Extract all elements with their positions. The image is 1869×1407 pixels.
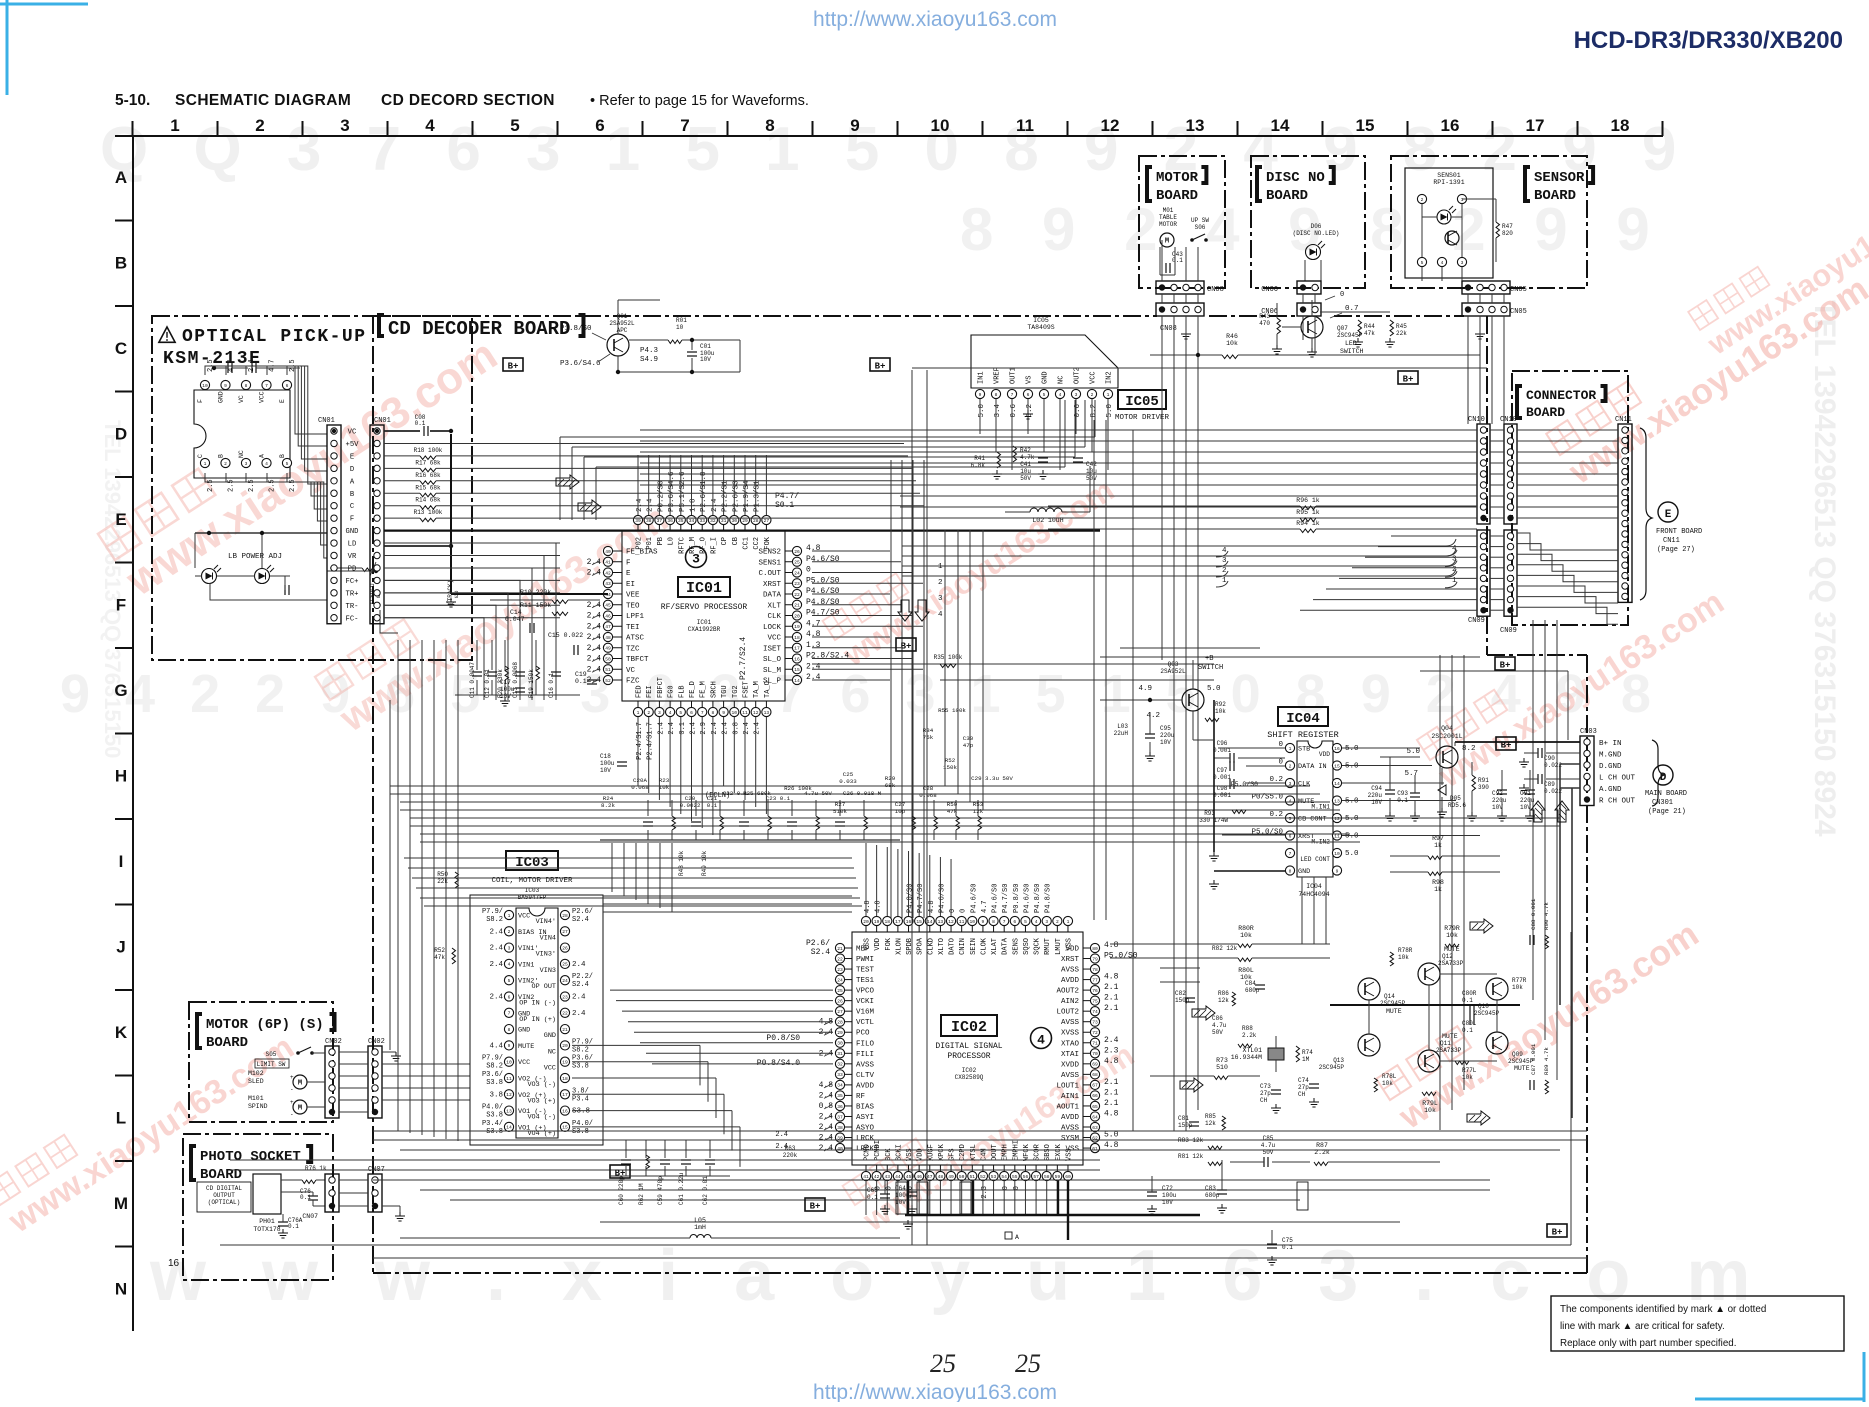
svg-text:B+: B+ [875, 362, 886, 372]
board DISC NO BOARD outline [1251, 156, 1365, 288]
svg-text:25: 25 [1015, 1349, 1041, 1378]
svg-text:C81: C81 [1178, 1115, 1189, 1122]
svg-text:OP OUT: OP OUT [532, 983, 556, 991]
svg-text:FLB: FLB [678, 685, 686, 698]
wire inner gray box [911, 370, 913, 1245]
wire CN10 gap rows [1490, 429, 1504, 431]
svg-text:FOK: FOK [885, 937, 893, 950]
left ruler line [132, 136, 134, 1331]
svg-text:75k: 75k [923, 734, 934, 741]
svg-text:EI: EI [626, 581, 635, 589]
svg-text:CLK: CLK [767, 613, 781, 621]
svg-text:TR+: TR+ [346, 590, 359, 598]
svg-text:10V: 10V [1162, 1199, 1173, 1206]
svg-text:2: 2 [938, 579, 943, 587]
svg-text:P4.8/S0: P4.8/S0 [1034, 884, 1042, 913]
svg-text:680p: 680p [1205, 1192, 1220, 1199]
svg-text:OUTPUT: OUTPUT [213, 1192, 235, 1199]
svg-text:3: 3 [658, 710, 661, 716]
top ruler ticks and numbers [132, 121, 134, 136]
svg-text:2.2k: 2.2k [1242, 1032, 1257, 1039]
svg-text:2.4: 2.4 [668, 722, 676, 735]
svg-text:M101: M101 [248, 1095, 264, 1102]
svg-text:B: B [218, 454, 225, 458]
svg-text:M: M [298, 1105, 302, 1113]
svg-text:77: 77 [1092, 977, 1098, 983]
svg-text:C62 0.01: C62 0.01 [702, 1176, 709, 1205]
svg-text:12: 12 [753, 710, 759, 716]
svg-text:35: 35 [678, 518, 684, 524]
svg-text:22k: 22k [437, 878, 448, 885]
svg-text:5.7: 5.7 [1404, 770, 1418, 778]
svg-text:B: B [279, 454, 286, 458]
svg-text:LPF1: LPF1 [626, 613, 645, 621]
svg-text:VS: VS [1026, 376, 1034, 384]
svg-text:P2.8/S2.4: P2.8/S2.4 [806, 652, 849, 661]
svg-text:R88: R88 [1242, 1025, 1253, 1032]
svg-text:MUTE: MUTE [518, 1043, 534, 1051]
svg-text:0.1: 0.1 [415, 420, 426, 427]
svg-text:RPI-1391: RPI-1391 [1433, 179, 1464, 186]
svg-text:RF_O: RF_O [700, 537, 708, 554]
svg-text:GND: GND [1042, 371, 1050, 384]
svg-text:0.1: 0.1 [1172, 257, 1183, 264]
svg-text:4: 4 [1059, 392, 1062, 398]
svg-text:0.047: 0.047 [505, 616, 525, 623]
svg-text:P4.8/S0: P4.8/S0 [1045, 884, 1053, 913]
svg-text:S05: S05 [266, 1051, 277, 1058]
svg-text:FSET: FSET [743, 681, 751, 698]
svg-text:R10 220k: R10 220k [520, 589, 551, 596]
svg-text:(DISC NO.LED): (DISC NO.LED) [1293, 230, 1340, 237]
pickup IC body [194, 390, 290, 478]
connector CN06 disc board [1297, 281, 1321, 294]
svg-text:VCTL: VCTL [856, 1019, 875, 1027]
svg-text:15: 15 [916, 919, 922, 925]
svg-text:74: 74 [1092, 1009, 1098, 1015]
svg-text:R76 1k: R76 1k [305, 1165, 327, 1172]
svg-text:TABLE: TABLE [1159, 214, 1177, 221]
svg-text:43: 43 [605, 581, 611, 587]
svg-text:TA8409S: TA8409S [1027, 324, 1054, 331]
svg-text:DISC NO: DISC NO [1266, 170, 1325, 186]
svg-text:2.1: 2.1 [1104, 983, 1119, 992]
svg-text:0.1: 0.1 [1462, 1027, 1473, 1034]
svg-text:16.9344M: 16.9344M [1231, 1054, 1262, 1061]
svg-text:TEL 13942296513 QQ 376315150: TEL 13942296513 QQ 376315150 [100, 420, 125, 758]
capacitor C41 10u 50V [1038, 457, 1048, 459]
svg-text:F: F [626, 559, 631, 567]
svg-text:R19 150k: R19 150k [528, 669, 535, 698]
svg-text:5: 5 [1043, 392, 1046, 398]
svg-text:GND: GND [218, 391, 225, 403]
svg-text:P4.6/S0: P4.6/S0 [970, 884, 978, 913]
svg-text:R41: R41 [974, 455, 985, 462]
svg-text:WFCK: WFCK [1023, 1143, 1031, 1161]
svg-text:CN03: CN03 [1580, 728, 1597, 736]
arrow mid right [1192, 1006, 1215, 1020]
svg-text:220k: 220k [783, 1152, 798, 1159]
svg-text:P4.6/S0: P4.6/S0 [992, 884, 1000, 913]
svg-text:P4.6/S0: P4.6/S0 [806, 555, 840, 564]
svg-text:VPCO: VPCO [856, 988, 875, 996]
svg-text:3: 3 [508, 945, 511, 951]
svg-text:C80R: C80R [1462, 990, 1477, 997]
svg-text:TG2: TG2 [732, 685, 740, 698]
svg-text:LOCK: LOCK [763, 624, 782, 632]
svg-text:4.2: 4.2 [1146, 712, 1160, 720]
svg-text:10: 10 [732, 710, 738, 716]
svg-text:IC02: IC02 [951, 1019, 987, 1036]
svg-text:2.4: 2.4 [819, 1144, 834, 1153]
svg-text:50V: 50V [1020, 475, 1031, 482]
svg-text:R81 12k: R81 12k [1178, 1153, 1204, 1160]
svg-text:P3.6/: P3.6/ [482, 1071, 503, 1079]
svg-text:http://www.xiaoyu163.com: http://www.xiaoyu163.com [813, 8, 1057, 31]
svg-text:VCC: VCC [259, 391, 266, 403]
svg-text:2.1: 2.1 [1104, 994, 1119, 1003]
svg-text:4: 4 [1441, 260, 1444, 266]
svg-text:66: 66 [1092, 1093, 1098, 1099]
svg-text:C97: C97 [1217, 767, 1228, 774]
svg-text:2SA733P: 2SA733P [1436, 1047, 1462, 1054]
svg-text:SPDB: SPDB [906, 938, 914, 955]
svg-text:R01: R01 [676, 317, 687, 324]
processor IC02 DIGITAL SIGNAL PROCESSOR body [852, 932, 1083, 1165]
svg-text:(Page 27): (Page 27) [1657, 546, 1695, 554]
svg-text:C12 0.01: C12 0.01 [484, 669, 491, 698]
svg-text:1mH: 1mH [694, 1224, 706, 1231]
svg-text:XPCK: XPCK [938, 1143, 946, 1161]
svg-text:GND: GND [518, 1027, 530, 1035]
svg-text:2.4: 2.4 [775, 1143, 788, 1151]
shift register IC04 label box [1278, 707, 1328, 726]
svg-text:R98: R98 [1432, 879, 1444, 886]
svg-text:5.0: 5.0 [1406, 748, 1420, 756]
svg-text:A: A [1015, 1234, 1019, 1241]
svg-text:68k: 68k [885, 782, 896, 789]
svg-text:1k: 1k [1434, 886, 1442, 893]
connector CN10 left strip [1477, 424, 1490, 524]
B+ label top left [503, 358, 523, 371]
svg-text:C29 3.3u 50V: C29 3.3u 50V [971, 775, 1013, 782]
svg-text:FBFCT: FBFCT [657, 677, 665, 698]
svg-text:36: 36 [837, 1104, 843, 1110]
wire bus vertical right side [1439, 655, 1441, 1130]
svg-text:4.8: 4.8 [928, 900, 936, 913]
svg-text:MUTE: MUTE [1442, 1033, 1458, 1040]
svg-text:10k: 10k [1215, 708, 1226, 715]
svg-text:SENSOR: SENSOR [1534, 170, 1585, 186]
svg-text:17: 17 [1526, 116, 1545, 135]
svg-text:4.8: 4.8 [1104, 1057, 1119, 1066]
svg-text:C60 220p: C60 220p [618, 1176, 625, 1205]
svg-text:P0.8/S0: P0.8/S0 [766, 1034, 800, 1043]
wires CN02 rows [339, 1051, 368, 1053]
svg-text:J: J [116, 938, 125, 957]
svg-text:CLTV: CLTV [856, 1072, 875, 1080]
svg-text:10V: 10V [600, 767, 611, 774]
svg-text:Q14: Q14 [1384, 993, 1395, 1000]
svg-text:10: 10 [202, 383, 208, 389]
svg-text:2.4: 2.4 [587, 633, 602, 642]
svg-text:A: A [115, 168, 127, 187]
svg-text:52: 52 [605, 678, 611, 684]
svg-text:R13 100k: R13 100k [414, 509, 443, 516]
svg-text:XUGF: XUGF [927, 1144, 935, 1161]
svg-text:VCKI: VCKI [856, 998, 874, 1006]
wire pickup to CN01 fan [205, 366, 327, 434]
svg-text:R79L: R79L [1422, 1100, 1438, 1107]
svg-text:3: 3 [1461, 260, 1464, 266]
svg-text:B+: B+ [810, 1202, 821, 1212]
svg-text:R94 1k: R94 1k [1296, 520, 1320, 527]
svg-text:B: B [115, 254, 127, 273]
svg-text:R16 68k: R16 68k [415, 472, 441, 479]
svg-text:14: 14 [794, 678, 800, 684]
svg-text:CN02: CN02 [368, 1038, 385, 1046]
svg-text:S3.8: S3.8 [486, 1112, 503, 1120]
svg-text:36: 36 [667, 518, 673, 524]
wire rows under Q03 zone [940, 663, 1214, 665]
svg-text:15: 15 [562, 1125, 568, 1131]
wire bundle into IC02 topleft labels [404, 857, 852, 859]
svg-text:10k: 10k [1382, 1080, 1393, 1087]
label SENSOR BOARD [1525, 167, 1530, 201]
svg-text:38: 38 [837, 1125, 843, 1131]
wire CN03 rows [1455, 741, 1580, 743]
svg-text:10u: 10u [1020, 468, 1031, 475]
svg-text:10: 10 [1334, 851, 1340, 857]
IC03 left pins 1-14 [504, 910, 513, 919]
svg-text:CD DIGITAL: CD DIGITAL [206, 1185, 242, 1192]
svg-text:17: 17 [895, 919, 901, 925]
svg-text:2.9: 2.9 [700, 722, 708, 735]
svg-text:TOTX178: TOTX178 [253, 1226, 280, 1233]
svg-text:2SA952L: 2SA952L [1160, 668, 1186, 675]
svg-text:12: 12 [506, 1092, 512, 1098]
svg-text:XLTO: XLTO [938, 938, 946, 955]
svg-text:line with mark ▲ are critical: line with mark ▲ are critical for safety… [1560, 1321, 1725, 1332]
svg-text:220u: 220u [1520, 797, 1535, 804]
svg-text:SCHEMATIC DIAGRAM: SCHEMATIC DIAGRAM [175, 92, 351, 109]
svg-text:20: 20 [562, 1043, 568, 1049]
svg-text:P4.8/S0: P4.8/S0 [806, 598, 840, 607]
transistor Q14 2SC945P MUTE [1358, 978, 1380, 1000]
svg-text:7: 7 [265, 383, 268, 389]
node 4 circle [1031, 1028, 1052, 1049]
svg-text:R44: R44 [1364, 323, 1375, 330]
svg-text:VSS: VSS [1065, 938, 1073, 951]
board MOTOR BOARD outline [1139, 156, 1225, 288]
svg-text:S3.8: S3.8 [572, 1063, 589, 1071]
svg-text:26: 26 [837, 998, 843, 1004]
svg-text:BOARD: BOARD [1526, 405, 1565, 420]
svg-text:4.8: 4.8 [806, 630, 821, 639]
svg-text:1: 1 [1461, 197, 1464, 203]
svg-text:E: E [1665, 509, 1672, 521]
svg-text:VDD: VDD [1319, 751, 1330, 758]
svg-text:D06: D06 [1311, 223, 1322, 230]
watermark pink center lower [842, 1014, 1141, 1238]
svg-text:C26 0.018 M: C26 0.018 M [843, 790, 882, 797]
svg-text:R18 100k: R18 100k [414, 447, 443, 454]
ground CN07 right [382, 1205, 400, 1207]
svg-text:BOARD: BOARD [206, 1035, 248, 1051]
svg-text:C20A: C20A [633, 777, 647, 784]
resistor R45 22k [1390, 320, 1394, 336]
svg-text:47k: 47k [1364, 330, 1375, 337]
svg-text:C84: C84 [1245, 980, 1256, 987]
svg-text:2.1: 2.1 [1104, 1004, 1119, 1013]
svg-text:PCO: PCO [856, 1030, 870, 1038]
svg-text:C82: C82 [1175, 990, 1186, 997]
svg-text:NC: NC [1058, 376, 1066, 384]
svg-text:0: 0 [949, 909, 957, 913]
svg-text:C15 0.022: C15 0.022 [548, 632, 583, 639]
svg-text:21: 21 [837, 946, 843, 952]
svg-text:D: D [115, 425, 127, 444]
svg-text:CN01: CN01 [374, 417, 391, 425]
svg-text:Q12: Q12 [1442, 953, 1453, 960]
svg-text:2: 2 [647, 710, 650, 716]
IC02 top pins 20-1 [861, 916, 870, 925]
svg-text:2.4: 2.4 [587, 622, 602, 631]
connector CN01 pickup side [327, 425, 341, 624]
svg-text:4: 4 [669, 710, 672, 716]
svg-text:2: 2 [508, 929, 511, 935]
svg-text:R42: R42 [1020, 447, 1031, 454]
resistor R42 4.7k [1013, 446, 1017, 462]
cyan corner mark bottom-right [1863, 1352, 1866, 1402]
svg-text:FRONT BOARD: FRONT BOARD [1656, 528, 1702, 536]
svg-text:C17: C17 [500, 679, 511, 686]
connector CN11 strip [1618, 424, 1632, 602]
svg-text:1: 1 [1107, 392, 1110, 398]
svg-text:RFTC: RFTC [678, 537, 686, 554]
svg-text:9: 9 [850, 116, 859, 135]
front board brace [1640, 428, 1652, 600]
svg-text:MOTOR: MOTOR [1159, 221, 1177, 228]
svg-text:24: 24 [562, 978, 568, 984]
svg-text:13: 13 [1186, 116, 1205, 135]
pickup bottom pins 1-5 [200, 458, 209, 467]
svg-text:R14 68k: R14 68k [415, 497, 441, 504]
svg-text:12: 12 [1101, 116, 1120, 135]
svg-text:12k: 12k [1205, 1120, 1216, 1127]
svg-text:D05: D05 [1450, 795, 1461, 802]
svg-text:TEL 13942296513 QQ 376315150 8: TEL 13942296513 QQ 376315150 8924 [1808, 300, 1841, 837]
svg-text:R89 4.7k: R89 4.7k [1543, 1047, 1550, 1075]
svg-text:0.068: 0.068 [631, 784, 649, 791]
svg-text:15: 15 [1334, 763, 1340, 769]
svg-text:P2.6/: P2.6/ [572, 908, 593, 916]
svg-text:(OPTICAL): (OPTICAL) [208, 1199, 240, 1206]
svg-text:2.4: 2.4 [587, 612, 602, 621]
svg-text:LRCK: LRCK [856, 1135, 875, 1143]
svg-text:DATA: DATA [1002, 937, 1010, 955]
svg-text:71: 71 [1092, 1041, 1098, 1047]
svg-text:IC02: IC02 [962, 1067, 977, 1074]
svg-text:LOUT1: LOUT1 [1056, 1082, 1079, 1090]
svg-text:2.4: 2.4 [489, 945, 503, 953]
svg-text:1: 1 [938, 563, 943, 571]
svg-text:VIN4': VIN4' [536, 918, 556, 926]
farm symbols below IC01 [643, 821, 653, 823]
svg-text:XTAO: XTAO [1061, 1040, 1080, 1048]
IC02 label box [941, 1015, 997, 1036]
svg-text:2.4: 2.4 [657, 722, 665, 735]
svg-text:0.1: 0.1 [575, 678, 587, 685]
svg-text:XTSL: XTSL [970, 1144, 978, 1161]
svg-text:13: 13 [506, 1108, 512, 1114]
svg-text:VO4 (-): VO4 (-) [527, 1114, 556, 1122]
svg-text:6: 6 [508, 994, 511, 1000]
svg-text:C98: C98 [1217, 785, 1228, 792]
svg-text:OPTICAL PICK-UP: OPTICAL PICK-UP [182, 327, 367, 347]
svg-text:2.4: 2.4 [806, 673, 821, 682]
svg-text:S3.8: S3.8 [486, 1079, 503, 1087]
svg-text:2: 2 [1421, 197, 1424, 203]
node E circle [1658, 502, 1678, 522]
svg-text:61: 61 [1092, 1146, 1098, 1152]
svg-text:FEI: FEI [646, 685, 654, 698]
connector CN03 main board [1580, 736, 1594, 806]
svg-text:27p: 27p [1298, 1084, 1309, 1091]
wire verticals band to IC03 region [611, 843, 613, 892]
svg-text:55: 55 [1012, 1174, 1018, 1180]
svg-text:64: 64 [1092, 1114, 1098, 1120]
sensor led symbol [1437, 210, 1451, 224]
resistor R91 390 [1472, 775, 1476, 791]
svg-text:CX82589Q: CX82589Q [955, 1074, 984, 1081]
svg-text:4.8: 4.8 [875, 900, 883, 913]
svg-text:R85: R85 [1205, 1113, 1216, 1120]
svg-text:IC01: IC01 [686, 580, 722, 597]
svg-text:2: 2 [255, 116, 264, 135]
svg-text:LD: LD [348, 541, 357, 549]
svg-text:2.5: 2.5 [228, 479, 236, 492]
svg-text:B+: B+ [1403, 375, 1414, 385]
svg-text:18: 18 [885, 919, 891, 925]
svg-text:3: 3 [1045, 919, 1048, 925]
svg-text:AVDD: AVDD [1061, 977, 1080, 985]
svg-text:VCC: VCC [1090, 371, 1098, 384]
svg-text:28: 28 [562, 913, 568, 919]
svg-text:L CH OUT: L CH OUT [1599, 775, 1636, 783]
connector CN07 decoder side [368, 1174, 382, 1212]
wire right side y671 [1420, 670, 1568, 672]
svg-text:51: 51 [605, 667, 611, 673]
svg-text:10k: 10k [1512, 984, 1523, 991]
svg-text:OUT1: OUT1 [1010, 367, 1018, 384]
svg-text:10V: 10V [1371, 799, 1382, 806]
svg-text:16: 16 [562, 1108, 568, 1114]
svg-text:GND: GND [544, 1032, 556, 1040]
svg-text:UP SW: UP SW [1191, 217, 1209, 224]
wire CN09 rows to left [1391, 535, 1477, 537]
svg-text:E: E [350, 453, 354, 461]
svg-text:75: 75 [1092, 998, 1098, 1004]
svg-text:R78R: R78R [1398, 947, 1413, 954]
svg-text:C11 0.0047: C11 0.0047 [469, 662, 476, 698]
wire Q03 collector [1192, 711, 1194, 740]
svg-text:22k: 22k [1396, 330, 1407, 337]
svg-text:3.8: 3.8 [489, 1091, 503, 1099]
svg-text:7: 7 [508, 1011, 511, 1017]
ground CN08 [1185, 316, 1187, 330]
svg-text:4: 4 [1037, 1033, 1045, 1048]
